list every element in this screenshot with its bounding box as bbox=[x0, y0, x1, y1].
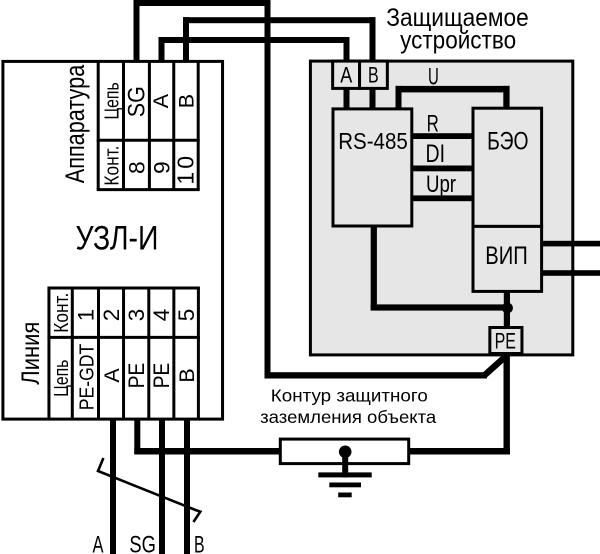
wire ВИП output 1 bbox=[542, 241, 600, 247]
wire long vertical (SG loop) bbox=[265, 0, 271, 378]
terminal table bottom (Линия: Конт./Цепь) bbox=[47, 288, 199, 419]
svg-text:Аппаратура: Аппаратура bbox=[60, 64, 90, 183]
svg-text:В: В bbox=[175, 94, 199, 108]
svg-text:RS-485: RS-485 bbox=[338, 128, 408, 154]
junction dot bbox=[502, 303, 513, 314]
wire ground left horizontal bbox=[134, 448, 280, 455]
svg-text:БЭО: БЭО bbox=[487, 128, 528, 156]
svg-text:УЗЛ-И: УЗЛ-И bbox=[76, 219, 159, 257]
wire PE(3) vertical bbox=[134, 419, 140, 455]
wire R bbox=[412, 133, 473, 139]
protected device box (Защищаемое устройство) bbox=[310, 61, 572, 355]
wire SG vertical into table bbox=[134, 0, 140, 61]
wire RS-485 bottom vertical bbox=[371, 226, 377, 311]
wire SG top horizontal bbox=[134, 0, 271, 6]
svg-text:А: А bbox=[93, 532, 104, 554]
device УЗЛ-И box bbox=[3, 61, 223, 419]
svg-text:В: В bbox=[194, 532, 205, 554]
wire B horizontal bbox=[183, 17, 376, 23]
wire A horizontal bbox=[159, 37, 350, 43]
svg-text:9: 9 bbox=[150, 161, 175, 174]
svg-text:А: А bbox=[149, 93, 173, 108]
wire diagonal from loop to PE bbox=[485, 356, 507, 376]
terminal A box bbox=[333, 61, 360, 88]
terminal PE box bbox=[490, 328, 522, 354]
svg-text:Линия: Линия bbox=[17, 322, 45, 385]
wire U left vertical bbox=[396, 86, 402, 109]
block ВИП bbox=[473, 226, 542, 291]
wire line A vertical bbox=[110, 419, 116, 554]
wire B box to RS-485 bbox=[370, 88, 376, 109]
svg-text:DI: DI bbox=[426, 140, 446, 168]
ground node dot bbox=[339, 446, 352, 459]
svg-text:В: В bbox=[368, 62, 379, 87]
wire Upr bbox=[412, 195, 473, 201]
wire DI bbox=[412, 166, 473, 172]
ground stem bbox=[342, 451, 348, 477]
wire ВИП output 2 bbox=[542, 270, 600, 276]
svg-text:PE-GDT: PE-GDT bbox=[75, 343, 98, 410]
wire A box to RS-485 bbox=[344, 88, 350, 109]
wire A vertical left bbox=[159, 37, 165, 61]
label Защищаемое устройство bbox=[386, 4, 529, 54]
svg-text:4: 4 bbox=[149, 309, 174, 322]
svg-text:1: 1 bbox=[73, 309, 98, 322]
svg-text:А: А bbox=[340, 62, 352, 87]
ground symbol bars bbox=[318, 472, 371, 477]
svg-text:SG: SG bbox=[124, 86, 151, 117]
svg-text:В: В bbox=[175, 368, 199, 382]
svg-text:1: 1 bbox=[173, 172, 199, 185]
svg-text:А: А bbox=[100, 368, 124, 383]
svg-text:PE: PE bbox=[149, 363, 174, 388]
svg-text:2: 2 bbox=[99, 309, 124, 322]
wire ВИП bottom to PE box bbox=[504, 291, 510, 329]
wire U right vertical bbox=[503, 86, 509, 109]
svg-text:Цепь: Цепь bbox=[50, 360, 73, 397]
svg-text:ВИП: ВИП bbox=[485, 242, 528, 270]
svg-text:R: R bbox=[427, 111, 439, 138]
svg-text:устройство: устройство bbox=[400, 26, 516, 54]
svg-text:5: 5 bbox=[174, 309, 199, 322]
svg-text:PE: PE bbox=[495, 329, 516, 354]
wire ground right horizontal bbox=[409, 448, 510, 455]
block БЭО bbox=[473, 108, 542, 226]
cable slash marker bbox=[98, 458, 200, 522]
top table texts bbox=[101, 82, 199, 185]
wire B vertical left bbox=[183, 17, 189, 61]
bottom table texts bbox=[50, 293, 199, 411]
ground bus bar bbox=[280, 439, 408, 464]
wire bottom horizontal to junction bbox=[371, 304, 510, 310]
wire B vertical right bbox=[370, 17, 376, 61]
svg-text:Цепь: Цепь bbox=[101, 82, 124, 119]
svg-text:Контур защитного: Контур защитного bbox=[271, 385, 428, 405]
wire A vertical right bbox=[344, 37, 350, 62]
svg-text:SG: SG bbox=[129, 532, 156, 554]
terminal B box bbox=[360, 61, 388, 88]
wire PE vertical below PE box bbox=[504, 354, 510, 455]
svg-text:PE: PE bbox=[124, 363, 149, 388]
svg-text:0: 0 bbox=[173, 156, 199, 169]
svg-text:Конт.: Конт. bbox=[102, 146, 124, 186]
wire line B vertical bbox=[184, 419, 190, 554]
wire line SG vertical bbox=[159, 419, 165, 554]
svg-text:заземления объекта: заземления объекта bbox=[260, 407, 436, 427]
svg-text:U: U bbox=[428, 63, 439, 90]
svg-text:3: 3 bbox=[124, 309, 149, 322]
svg-text:Конт.: Конт. bbox=[51, 293, 73, 333]
terminal table top (Аппаратура: Цепь/Конт.) bbox=[97, 61, 200, 190]
block RS-485 bbox=[333, 109, 412, 226]
wire loop horizontal under grey box bbox=[265, 372, 488, 378]
svg-text:Upr: Upr bbox=[426, 171, 456, 198]
wire U horizontal bbox=[396, 86, 510, 93]
svg-text:8: 8 bbox=[125, 161, 150, 174]
